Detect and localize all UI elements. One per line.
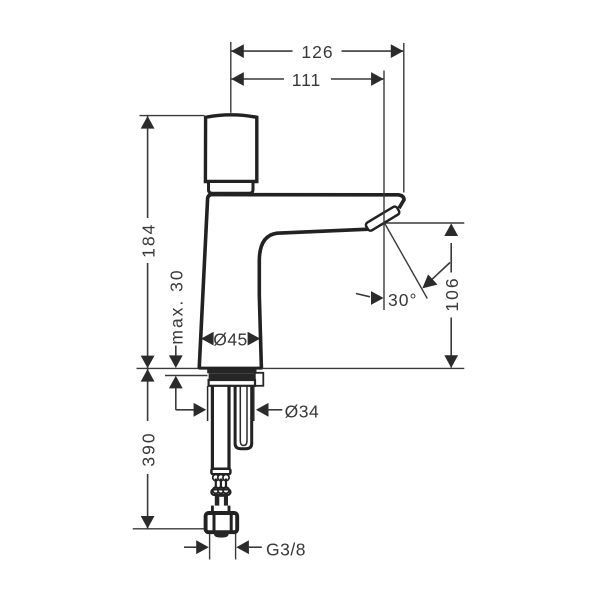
hose braid circles bottom — [213, 487, 219, 493]
extension line for 111 right / aerator vertical — [383, 71, 385, 311]
dimension 106 — [442, 223, 462, 368]
mounting surface line — [137, 367, 465, 369]
svg-text:30°: 30° — [388, 290, 417, 310]
base gasket bar — [207, 369, 256, 373]
faucet body and spout outline — [199, 195, 404, 369]
30 degree horizontal arrow at vertical line — [356, 291, 384, 305]
hose braid bars — [215, 479, 217, 490]
hose block — [215, 494, 228, 506]
dimension 184 — [138, 116, 158, 368]
30 degree slanted line — [385, 223, 428, 299]
svg-text:126: 126 — [301, 42, 333, 62]
hex nut facet right — [230, 514, 233, 531]
right tube outer — [235, 386, 252, 449]
base dark plate — [209, 373, 255, 380]
threaded shank envelope right line — [253, 386, 255, 421]
extension line for 126 right (spout tip) — [403, 43, 405, 193]
threaded shank envelope left line — [207, 386, 209, 421]
svg-text:106: 106 — [442, 276, 462, 311]
aerator — [365, 205, 400, 231]
hose nut reference line (390 bottom) — [133, 528, 206, 530]
handle top reference line (184 top) — [140, 115, 205, 117]
right tube inner — [240, 386, 247, 446]
30 degree leader arrow on slanted line — [422, 263, 450, 289]
base tab right — [255, 373, 263, 386]
hose block slot — [219, 497, 224, 506]
svg-text:G3/8: G3/8 — [266, 539, 306, 559]
svg-text:max. 30: max. 30 — [166, 268, 186, 344]
base washer plate — [209, 380, 255, 386]
dimension max. 30 — [166, 268, 186, 409]
nut nipple — [214, 532, 229, 537]
106 top reference line — [385, 222, 465, 224]
supply pipe right wall — [227, 386, 230, 469]
handle collar — [209, 182, 254, 194]
dimension 111 — [231, 70, 384, 90]
hose bulge collar — [211, 489, 230, 495]
dimension 390 — [138, 369, 158, 529]
svg-text:111: 111 — [292, 70, 322, 90]
hex nut — [206, 513, 238, 532]
dimension G3/8 — [184, 534, 306, 560]
svg-text:390: 390 — [138, 431, 158, 466]
hex nut facet left — [213, 514, 216, 531]
washer bottom reference line — [165, 375, 208, 377]
hose lower tube right wall — [228, 506, 231, 513]
diameter 34 label — [176, 402, 319, 422]
faucet handle knob — [205, 115, 256, 182]
svg-text:Ø34: Ø34 — [285, 402, 320, 422]
hose braid circles top — [213, 475, 219, 481]
hose lower tube left wall — [211, 506, 214, 513]
spout underside — [259, 229, 368, 368]
diameter 45 label — [201, 329, 260, 349]
extension line for 126/111 left (faucet axis) — [230, 42, 232, 113]
supply pipe left wall — [211, 386, 214, 469]
faucet body bottom edge — [199, 367, 263, 370]
dimension 126 — [231, 42, 403, 62]
svg-text:184: 184 — [138, 223, 158, 258]
hose crimp collar — [211, 469, 230, 475]
svg-text:Ø45: Ø45 — [213, 329, 248, 349]
